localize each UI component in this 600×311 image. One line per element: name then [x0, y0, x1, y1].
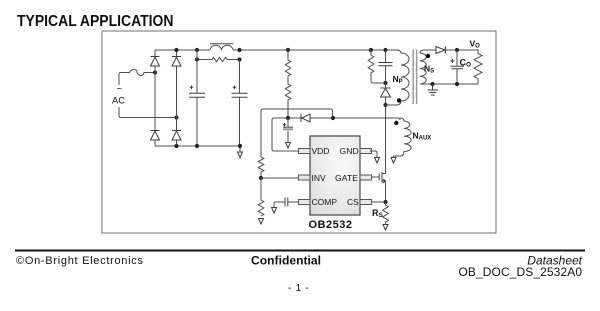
wire VDD cap to ground: [287, 118, 289, 143]
diode D7 output rectifier: [436, 47, 445, 54]
diode D5 VDD rectifier: [301, 114, 310, 122]
node drain top: [383, 103, 387, 107]
ground arrow COMP: [272, 208, 277, 214]
svg-text:OB2532: OB2532: [309, 219, 353, 231]
svg-text:VDD: VDD: [312, 146, 330, 156]
node CS: [383, 200, 387, 204]
capacitor C3 VDD plus: [283, 123, 287, 127]
wire COMP pin: [288, 201, 299, 203]
node snubber bottom: [383, 81, 387, 85]
node output bottom cap: [455, 82, 459, 86]
wire diode to aux node: [310, 118, 400, 120]
wire output bottom: [433, 83, 479, 85]
transformer secondary winding Ns: [420, 50, 436, 84]
capacitor C6 Co: [456, 50, 458, 84]
node top bus x197: [195, 48, 199, 52]
node top bus x176: [174, 48, 178, 52]
transformer core: [413, 50, 416, 105]
transformer T1 primary winding Np: [386, 50, 410, 105]
diode D6 clamp: [385, 83, 387, 105]
svg-text:CO: CO: [460, 58, 472, 69]
node top bus x288: [286, 48, 290, 52]
node Vo cap: [455, 48, 459, 52]
node top bus x371: [369, 48, 373, 52]
wire AC neutral: [121, 117, 177, 119]
pin GATE stub: [360, 175, 372, 180]
fuse F1: [119, 70, 155, 76]
phase dot primary: [397, 98, 401, 102]
ground arrow bottom bus: [238, 152, 243, 158]
wire GATE pin to mosfet: [372, 176, 380, 178]
wire VDD feedback frame: [263, 109, 333, 118]
wire GND pin to ground: [370, 151, 377, 158]
capacitor C1 plus: [190, 86, 194, 90]
capacitor C3 VDD: [283, 126, 293, 128]
capacitor C4 COMP: [285, 198, 288, 207]
svg-text:- 1 -: - 1 -: [288, 282, 309, 294]
svg-text:CS: CS: [347, 197, 359, 207]
wire bridge right column: [176, 50, 178, 146]
wire CS pin: [372, 201, 386, 203]
phase dot secondary: [426, 54, 430, 58]
wire INV pin: [261, 177, 298, 179]
node VDD cap: [286, 116, 290, 120]
svg-text:~: ~: [117, 84, 123, 95]
wire mosfet source to CS: [385, 181, 387, 202]
footer rule: [15, 250, 585, 252]
resistor R6 INV lower: [258, 178, 264, 216]
svg-text:VO: VO: [470, 39, 481, 50]
ground arrow aux: [391, 158, 396, 164]
snubber capacitor C5: [385, 50, 387, 83]
ground arrow GND pin: [375, 158, 380, 164]
node bottom bus x240: [238, 144, 242, 148]
node lower branch left: [195, 57, 199, 61]
svg-text:AC: AC: [112, 96, 125, 106]
node AC live / bridge: [153, 70, 157, 74]
mosfet Q1: [379, 172, 385, 183]
svg-text:RS: RS: [372, 208, 384, 219]
schematic frame box: [102, 31, 496, 233]
pin INV stub: [299, 175, 311, 180]
wire cap C1 column: [196, 50, 198, 146]
diode D2: [172, 57, 181, 67]
svg-text:INV: INV: [312, 173, 327, 183]
ground arrow INV divider: [259, 219, 264, 225]
svg-text:NAUX: NAUX: [413, 131, 432, 142]
snubber resistor R7: [368, 50, 385, 83]
resistor R4 startup lower: [285, 76, 291, 118]
earth ground secondary: [428, 84, 439, 95]
pin COMP stub: [299, 200, 311, 205]
svg-text:OB_DOC_DS_2532A0: OB_DOC_DS_2532A0: [459, 265, 583, 279]
svg-text:GATE: GATE: [335, 173, 358, 183]
node top bus x385: [383, 48, 387, 52]
wire INV frame: [261, 109, 263, 157]
capacitor C1: [189, 93, 205, 97]
wire VDD cap node: [274, 117, 301, 119]
node output bottom gnd: [430, 82, 434, 86]
svg-text:©On-Bright Electronics: ©On-Bright Electronics: [16, 255, 144, 267]
wire top bus: [155, 49, 399, 51]
capacitor C6 Co plus: [450, 59, 454, 63]
pin GND stub: [360, 149, 372, 154]
svg-text:NP: NP: [393, 74, 403, 85]
inductor L1 filter: [210, 45, 233, 50]
node top bus x239: [237, 48, 241, 52]
resistor R8 Rs: [383, 202, 389, 225]
svg-text:NS: NS: [424, 64, 434, 75]
resistor R5 INV upper: [258, 157, 264, 178]
wire AC live terminal: [119, 74, 121, 118]
svg-text:GND: GND: [340, 146, 359, 156]
capacitor C2: [232, 93, 248, 97]
phase dot aux: [394, 121, 398, 125]
node lower branch right: [237, 57, 241, 61]
capacitor C2 plus: [233, 86, 237, 90]
pin VDD stub: [299, 149, 311, 154]
wire bottom bus: [155, 146, 240, 152]
ground arrow VDD cap: [286, 143, 291, 149]
diode D3: [151, 131, 160, 141]
pin CS stub: [360, 200, 372, 205]
wire VDD pin: [272, 118, 298, 151]
resistor R9 load: [474, 54, 482, 85]
wire drain: [385, 105, 387, 174]
wire LR lower branch: [197, 59, 240, 61]
diode D1: [151, 57, 160, 67]
ground arrow Rs: [383, 225, 388, 231]
wire COMP cap to ground: [274, 202, 285, 208]
node INV: [259, 176, 263, 180]
svg-text:Confidential: Confidential: [251, 254, 321, 268]
node AC neutral / bridge: [174, 115, 178, 119]
svg-text:COMP: COMP: [312, 197, 338, 207]
resistor R3 startup upper: [285, 50, 291, 76]
node aux feedback: [331, 116, 335, 120]
transformer aux winding Naux: [394, 118, 412, 158]
diode D4: [172, 131, 181, 141]
resistor R2 filter: [212, 57, 227, 61]
svg-text:TYPICAL APPLICATION: TYPICAL APPLICATION: [17, 13, 174, 30]
wire cap C2 column: [239, 60, 241, 147]
node bottom bus x197: [195, 144, 199, 148]
node bottom bus x176: [174, 144, 178, 148]
wire bridge left column: [154, 50, 156, 146]
wire output: [445, 50, 478, 54]
